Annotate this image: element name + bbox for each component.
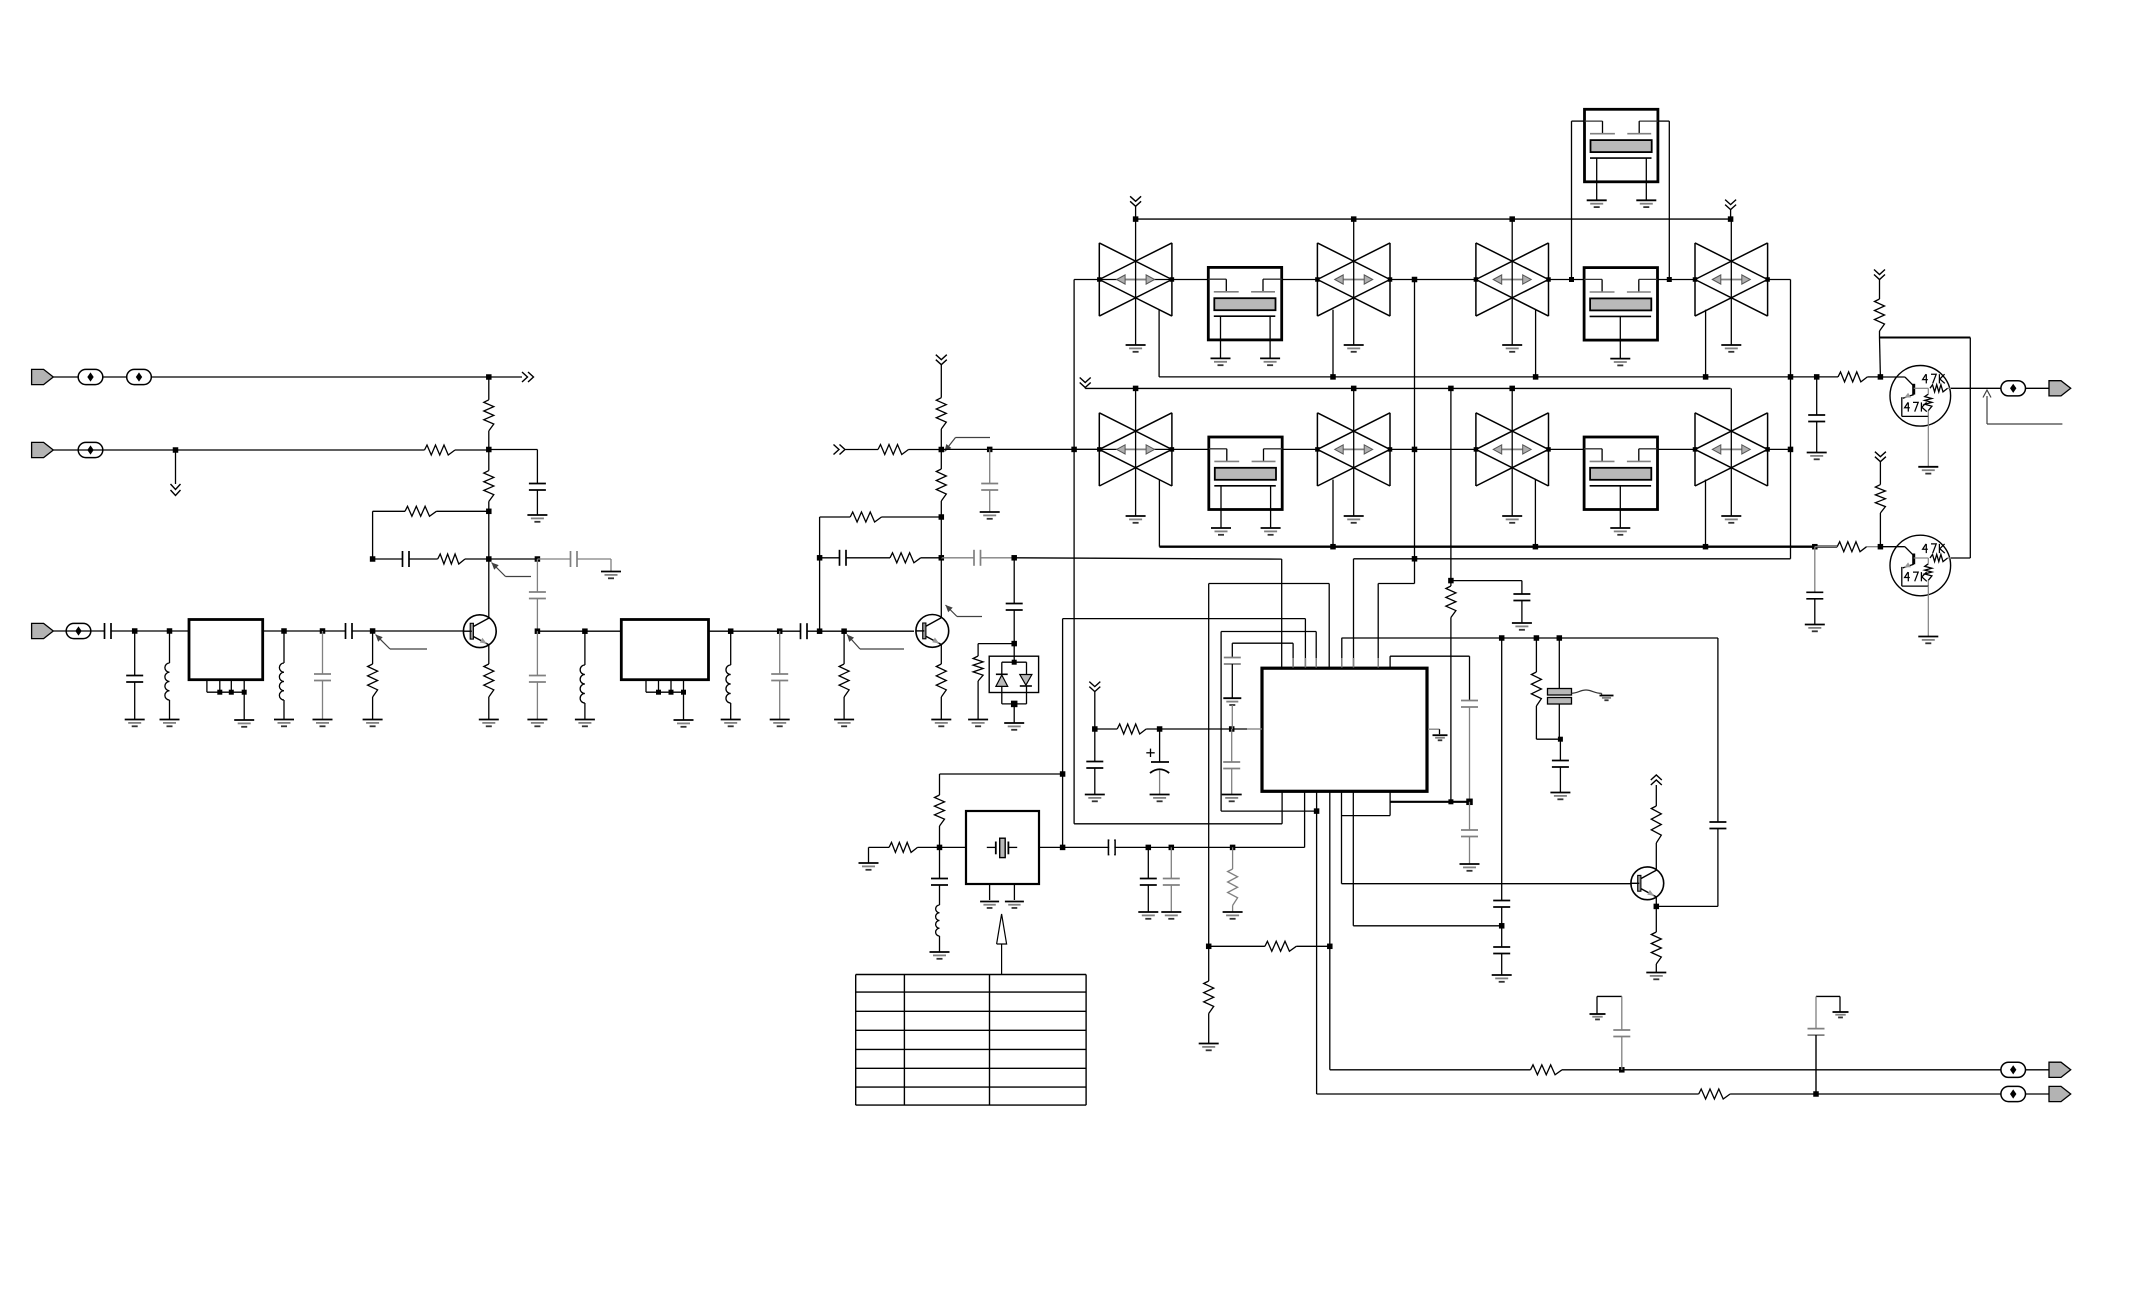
transistor Q4 (DTC with 47K)	[1890, 366, 1951, 427]
ground	[1460, 863, 1480, 865]
resistor R15	[973, 656, 983, 681]
node	[987, 447, 993, 453]
varactor B6	[1316, 413, 1318, 486]
inductor L4	[730, 631, 732, 665]
node	[1558, 737, 1563, 742]
ground row1-4	[1721, 344, 1741, 346]
node	[777, 628, 783, 634]
ground	[834, 719, 854, 721]
VCC bus row2	[1080, 378, 1091, 383]
ground	[1138, 911, 1158, 913]
row1 output drops	[1158, 310, 1160, 377]
MOSFET module M5 top	[1585, 109, 1658, 182]
cap C25	[1513, 593, 1530, 595]
series cap C11	[800, 623, 802, 639]
Q5 output up	[1951, 557, 1970, 559]
feedthrough FT2	[1816, 995, 1840, 997]
ground	[479, 719, 499, 721]
x1501 chain	[1501, 638, 1503, 901]
wire	[53, 630, 104, 632]
diode pair box D1	[989, 656, 1038, 692]
gray pin tails	[1292, 658, 1294, 668]
thick link	[1391, 801, 1470, 803]
wire	[111, 630, 189, 632]
feedback resistor R5	[438, 554, 465, 564]
wire FL2 out	[709, 630, 801, 632]
connector J6	[2049, 1086, 2071, 1101]
node	[939, 555, 945, 561]
wire net2	[53, 449, 424, 451]
cap C10 gray	[779, 631, 781, 674]
varactor B4	[1694, 243, 1696, 316]
junction on VCC bus1	[1509, 216, 1515, 222]
transistor Q3	[1631, 867, 1664, 900]
connector J2 (input line 2)	[32, 442, 54, 457]
loop to osc (pin p3)	[1304, 619, 1306, 669]
ground	[1085, 794, 1105, 796]
node	[486, 509, 492, 515]
resistor R11	[890, 553, 921, 563]
node	[939, 447, 945, 453]
ground	[125, 719, 145, 721]
ground	[980, 511, 1000, 513]
ground	[1004, 722, 1024, 724]
row1 bypass cap	[1814, 374, 1820, 380]
ground	[930, 951, 950, 953]
wire	[352, 630, 465, 632]
cap C23 gray	[1461, 700, 1478, 702]
wire net1	[53, 376, 522, 378]
ground	[274, 719, 294, 721]
node	[1157, 726, 1163, 732]
resistor R13	[940, 450, 942, 470]
resistor R23	[1535, 638, 1537, 672]
varactor B2	[1316, 243, 1318, 316]
IC U1	[1262, 668, 1427, 791]
varactor B3	[1475, 243, 1477, 316]
row2 output bus y546 thick	[1159, 546, 1837, 548]
junction on VCC bus1	[1728, 216, 1734, 222]
ceramic resonator X2	[1558, 638, 1560, 688]
ground	[1550, 792, 1570, 794]
ferrite bead FB4	[66, 623, 91, 638]
varactor B5	[1098, 413, 1100, 486]
supply R for Q5	[1875, 452, 1886, 457]
resistor R24	[1651, 806, 1661, 843]
q7 short loop	[1389, 791, 1391, 815]
junction on VCC bus2	[1351, 386, 1357, 392]
resistor R28	[1875, 299, 1885, 331]
feedback cap C4	[373, 558, 403, 560]
resistor R9 Q2 emitter	[936, 664, 946, 697]
wire varactor column row1-2	[1353, 219, 1355, 345]
resistor R1 (x488 upper)	[488, 377, 490, 400]
series cap C1	[104, 623, 106, 639]
node B4 feed	[1071, 447, 1077, 453]
wire FL1 out	[263, 630, 346, 632]
cap C6 gray	[322, 631, 324, 674]
node	[937, 845, 943, 851]
cap C2	[134, 631, 136, 676]
connector J1 (input line 1)	[32, 369, 54, 384]
off-page arrow right net1	[522, 372, 528, 382]
cap C27	[1501, 926, 1503, 947]
cap C30	[1808, 414, 1825, 416]
resistor R8	[843, 631, 845, 664]
ground	[968, 719, 988, 721]
series cap C7	[345, 623, 347, 639]
ground	[363, 719, 383, 721]
q6 to cap chain	[1352, 791, 1354, 926]
row2 device line	[1074, 448, 1209, 450]
resistor R21	[1208, 946, 1210, 981]
diode D1b down	[1020, 675, 1032, 686]
output connector J4	[2049, 381, 2071, 396]
q1 tank pin	[1281, 791, 1283, 824]
table row lines	[856, 974, 1086, 976]
feedthrough FT1	[1597, 995, 1622, 997]
node	[582, 628, 588, 634]
crystal out	[1039, 846, 1305, 848]
ground row2-3	[1502, 515, 1522, 517]
ground	[1222, 794, 1242, 796]
limiter feed	[1013, 558, 1015, 604]
wire	[455, 449, 489, 451]
ground	[1805, 624, 1825, 626]
ferrite bead FB2	[127, 369, 152, 384]
ground row2-4	[1721, 515, 1741, 517]
annotation arrow	[492, 563, 506, 577]
wire varactor column row2-2	[1353, 388, 1355, 516]
IC left pin network	[1089, 682, 1100, 687]
filter FL2	[621, 620, 708, 680]
resistor R10	[850, 512, 881, 522]
annotation arrow	[847, 635, 860, 650]
FL1 pins	[206, 680, 208, 693]
varactor B7	[1475, 413, 1477, 486]
pin p8 + right loop	[1389, 656, 1391, 668]
row2 bypass cap	[1812, 544, 1818, 550]
annotation arrow	[945, 438, 956, 452]
cap C20	[1094, 729, 1096, 762]
stage2 control line	[834, 445, 840, 455]
filter FL1	[189, 620, 263, 680]
wire	[807, 630, 914, 632]
row1 device line	[1074, 279, 1208, 281]
node	[370, 556, 376, 562]
node	[1146, 845, 1152, 851]
wire varactor column row1-1	[1135, 219, 1137, 345]
resistor R2	[425, 445, 456, 455]
node	[817, 628, 823, 634]
annotation arrow Q2 collector	[946, 605, 958, 617]
ground	[1223, 911, 1243, 913]
ground	[770, 719, 790, 721]
wire to IC pin	[1014, 558, 1281, 559]
varactor B8	[1694, 413, 1696, 486]
resistor R20	[1265, 941, 1296, 951]
cap C24 gray	[1469, 802, 1471, 830]
resistor R29	[1875, 485, 1885, 513]
connector J5	[2049, 1062, 2071, 1077]
junction on VCC bus1	[1351, 216, 1357, 222]
inductor L1	[169, 631, 171, 663]
resistor R6 (Q1 emitter)	[484, 664, 494, 697]
capacitor C3	[529, 483, 546, 485]
resistor R27	[1815, 546, 1837, 548]
junction on VCC bus2	[1509, 386, 1515, 392]
wire stub down	[175, 450, 177, 484]
cap C19 gray	[1170, 847, 1172, 878]
resistor R22	[1446, 586, 1456, 618]
ground	[527, 719, 547, 721]
junction on VCC bus1	[1133, 216, 1139, 222]
vco tank column x1074	[1073, 280, 1075, 824]
resistor R7	[372, 631, 374, 664]
row1 output line y377	[1159, 376, 1838, 378]
ground	[313, 719, 333, 721]
ground	[1807, 452, 1827, 454]
inductor L3	[584, 631, 586, 665]
cap C18	[1147, 847, 1149, 878]
inductor L5	[936, 905, 940, 936]
IC pin to disc line	[1341, 638, 1343, 668]
q4 to out1	[1329, 791, 1331, 1070]
ground	[721, 719, 741, 721]
supply R for Q4	[1874, 270, 1885, 275]
diode D1a up	[996, 673, 1008, 675]
disc line y638	[1342, 637, 1718, 639]
resistor R19	[1117, 724, 1146, 734]
resistor R14	[878, 445, 909, 455]
node	[1011, 641, 1017, 647]
series cap C17	[1108, 839, 1110, 855]
ground	[527, 514, 547, 516]
MOSFET module M3	[1209, 437, 1282, 510]
ground row2-2	[1344, 515, 1364, 517]
wire left	[978, 643, 1014, 645]
wire varactor column row2-1	[1135, 388, 1137, 516]
output oval FB5	[2001, 381, 2026, 396]
node	[320, 628, 326, 634]
cap C14 gray	[989, 449, 991, 483]
loop alpha (pin p4)	[1315, 632, 1317, 669]
loop beta: IC pin to gnd line	[1292, 643, 1294, 668]
disc right loop	[1717, 638, 1719, 822]
wire varactor column row2-3	[1511, 388, 1513, 516]
transistor Q5 (DTC with 47K)	[1890, 535, 1951, 596]
wire varactor column row1-4	[1730, 219, 1732, 345]
osc input R	[859, 862, 879, 864]
ground row1-1	[1126, 344, 1146, 346]
off-page arrow down	[171, 484, 181, 490]
cap C15	[1006, 603, 1023, 605]
Q4 output	[1951, 387, 2001, 389]
cap C31	[1806, 591, 1823, 593]
crystal Y1	[966, 811, 1039, 884]
feedback resistor R4	[405, 506, 436, 516]
wire to bypass cap	[489, 449, 538, 451]
node	[486, 447, 492, 453]
connector J3 (RF input)	[32, 623, 54, 638]
wire to varactor row2	[941, 448, 1099, 450]
MOSFET module M4	[1584, 437, 1657, 510]
node	[1230, 845, 1236, 851]
resistor R26	[1838, 372, 1867, 382]
MOSFET module M1	[1208, 267, 1281, 340]
cap C13 gray series	[941, 557, 974, 559]
ground FL2	[674, 719, 694, 721]
ground	[1646, 972, 1666, 974]
resistor R3 (x488 lower)	[488, 450, 490, 471]
oval FB6	[2001, 1062, 2026, 1077]
transistor Q2	[916, 615, 949, 648]
node	[535, 628, 541, 634]
node J at x175	[173, 447, 179, 453]
x1450 chain	[1450, 388, 1452, 586]
cap C8 gray	[529, 591, 546, 593]
node Q1 base	[370, 628, 376, 634]
cap C32 gray	[1613, 1029, 1630, 1031]
annotation arrow	[376, 635, 391, 650]
table column lines	[855, 975, 857, 1106]
cap C9 gray below	[536, 631, 538, 675]
B4/B8 column	[1790, 280, 1792, 559]
row2 output drops	[1158, 480, 1160, 547]
node	[167, 628, 173, 634]
resistor R31	[1699, 1089, 1730, 1099]
cap C33 gray	[1808, 1028, 1825, 1030]
ground row2-1	[1126, 515, 1146, 517]
node	[1169, 845, 1175, 851]
ground	[601, 571, 621, 573]
VCC bus row1	[1136, 218, 1731, 220]
node	[1229, 726, 1235, 732]
resistor R30	[1531, 1065, 1563, 1075]
pin p5 loop to det	[1328, 584, 1330, 669]
wire up to IC	[1304, 791, 1306, 847]
det out row	[1206, 944, 1212, 950]
annotation arrow out	[1986, 396, 1988, 424]
node Q1 collector	[486, 556, 492, 562]
osc vertical x1062	[1062, 619, 1064, 848]
varactor B1	[1098, 243, 1100, 316]
resistor R12	[936, 398, 946, 429]
node	[281, 628, 287, 634]
node	[728, 628, 734, 634]
cap C28	[1559, 739, 1561, 760]
ground	[1492, 974, 1512, 976]
cap C16	[939, 847, 941, 878]
link to Q5 out	[1880, 337, 1971, 339]
MOSFET module M2	[1584, 268, 1657, 341]
resistor R16	[935, 795, 945, 826]
ground	[1512, 622, 1532, 624]
resistor R25	[1655, 906, 1657, 932]
FL2 pins	[645, 680, 647, 693]
osc bias loop	[1060, 771, 1066, 777]
cap C29	[1709, 821, 1726, 823]
ferrite bead FB3	[78, 442, 103, 457]
transistor Q1	[463, 615, 496, 648]
ground FL1	[234, 719, 254, 721]
pin p6	[1353, 559, 1355, 668]
node	[535, 556, 541, 562]
node	[1011, 555, 1017, 561]
ground	[931, 719, 951, 721]
table callout arrow	[1001, 944, 1003, 975]
ground	[160, 719, 180, 721]
ground	[575, 719, 595, 721]
q5 to Q3 base	[1341, 791, 1343, 883]
ferrite bead FB1	[78, 369, 103, 384]
ground row1-3	[1502, 344, 1522, 346]
wire varactor column row1-3	[1511, 219, 1513, 345]
Q2 bias feedback	[819, 558, 821, 631]
ground	[1199, 1043, 1219, 1045]
wire varactor column row2-4	[1730, 388, 1732, 516]
ground	[1150, 794, 1170, 796]
node	[132, 628, 138, 634]
junction on VCC bus2	[1448, 386, 1454, 392]
B2/B6 column	[1414, 280, 1416, 584]
inductor L2	[283, 631, 285, 663]
oval FB7	[2001, 1086, 2026, 1101]
cap C26	[1493, 900, 1510, 902]
module M5 side loops	[1572, 120, 1585, 122]
resistor R17	[889, 842, 918, 852]
wire	[489, 558, 538, 560]
pin p7	[1377, 584, 1379, 669]
junction on VCC bus2	[1133, 386, 1139, 392]
coupling line stage1->FL2	[536, 559, 538, 592]
ground row1-2	[1344, 344, 1364, 346]
node junction net1/R	[486, 374, 492, 380]
ground	[1161, 911, 1181, 913]
wire	[536, 490, 538, 515]
q3 to out2	[1316, 791, 1318, 1094]
node Q2 base R	[841, 628, 847, 634]
cap C22 gray	[1231, 729, 1233, 762]
electrolytic C21	[1146, 752, 1154, 754]
resistor R18 gray	[1232, 847, 1234, 869]
wire y631	[537, 630, 621, 632]
cap C12	[820, 557, 840, 559]
supply column x941	[936, 355, 947, 360]
IC right pin gnd	[1428, 728, 1440, 730]
coupling cap C5 gray	[537, 558, 570, 560]
